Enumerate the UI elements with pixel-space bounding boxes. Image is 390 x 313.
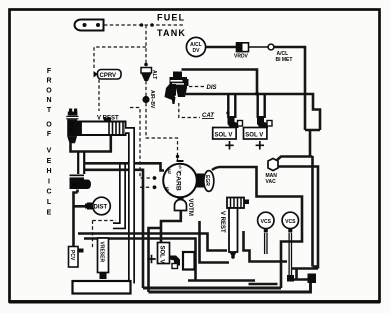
wire: v rest right link [244,231,288,262]
wire: low line [188,279,255,282]
wire: dashed junction down and over to carb B port [146,103,179,160]
fuel vapor separator (capsule) [75,20,104,31]
svg-text:E: E [47,209,52,216]
wire: dashed ALT to junction [145,81,147,96]
svg-text:SOL V: SOL V [215,132,233,138]
wire: VCV2 down, over to DIST and down to PCV [74,190,87,247]
svg-text:VOTM: VOTM [187,199,193,216]
svg-text:E: E [47,158,52,165]
svg-text:VRESER: VRESER [98,242,104,263]
svg-text:F: F [47,131,52,138]
svg-text:O: O [46,87,52,94]
check valve VCV 2 [70,175,92,190]
connector block [308,274,317,284]
A/CL DV (air cleaner duct vacuum) [186,37,205,56]
vacuum reservoir VRESER [98,238,109,279]
wire: votm drop to pan [200,221,230,263]
svg-text:EGR: EGR [204,175,210,186]
label FRONT OF VEHICLE [46,68,52,216]
svg-text:VCS: VCS [261,219,272,225]
VCS switch 1 [258,212,274,254]
svg-text:N: N [46,97,51,104]
svg-text:VAC: VAC [266,179,277,185]
wire: manifold line A to V REST pan [78,234,227,251]
PCV valve [69,247,84,268]
svg-text:VCS: VCS [285,219,296,225]
wire: manifold line B [84,239,196,281]
V REST vertical reservoir [219,198,249,260]
V REST horizontal reservoir [78,116,126,136]
wire: dashed CPRV to V REST [98,80,100,112]
wire: VCV1 to cylinder bottom and VCV2 [71,136,111,152]
wire: right riser to man vac [310,130,313,267]
check valve VCV 1 [66,109,78,144]
wire: low line 2 [249,283,278,286]
air bypass valve (black body) [165,72,189,105]
svg-text:SOL V: SOL V [245,132,263,138]
wire: dashed down to ALT valve [144,25,148,66]
solenoid valve SOL V 1 [213,128,236,150]
wire: man vac lower port to right riser [278,167,318,268]
wire: right lower jogs [291,267,318,280]
wire: A/CL DV to VRDV [206,46,236,49]
wire: bimet over and down right side [274,47,305,130]
carburetor CARB [163,161,197,197]
EGR valve [196,171,214,192]
wire: man vac upper port [277,157,313,161]
svg-text:VCV: VCV [72,183,83,189]
solenoid valve tube 1 [228,95,235,118]
wire: dashed CPRV branch [94,47,146,68]
svg-text:AIR–BV: AIR–BV [149,90,155,109]
svg-text:O: O [46,122,52,129]
hollow tube: bottom solenoid drop [183,252,195,270]
svg-text:CPRV: CPRV [100,73,117,79]
solenoid valve SOL V (bottom) [147,243,169,264]
wire: fan line to mid column [84,170,143,288]
wire: branch down to VCV2 (tube) [78,152,84,174]
wire: VRDV to bimet sensor [249,46,269,48]
svg-text:L: L [47,199,52,206]
svg-text:BI MET: BI MET [276,57,293,63]
solenoid elbow 1 [228,116,243,128]
svg-text:I: I [48,178,50,185]
label CAT [179,103,230,119]
CPRV valve [94,70,122,80]
svg-text:V REST: V REST [219,211,225,233]
svg-text:TANK: TANK [157,28,186,38]
VCS switch 2 [282,212,298,281]
wire: fan line to carb E port [84,163,164,170]
hollow tube: fan branch down to stub [112,164,123,226]
wire: fuel tank dashed line [104,23,185,27]
svg-text:VCV: VCV [67,122,73,133]
wire: bottom bus 2 [149,282,311,292]
node junction [255,92,259,96]
svg-text:VRDV: VRDV [234,54,249,60]
svg-text:V: V [47,148,52,155]
svg-text:R: R [46,78,51,85]
solenoid valve SOL V 2 [244,128,267,150]
distributor DIST [85,197,110,215]
svg-text:FUEL: FUEL [157,13,185,23]
svg-text:ALT: ALT [151,70,157,79]
VRDV (vacuum retard delay valve) [234,43,249,60]
wire: bypass valve upper line to SOL V 2 [182,70,258,96]
wire: main manifold line [184,94,320,130]
svg-text:H: H [46,168,51,175]
wire: dashed DIST branch to PCV [93,221,117,249]
label DIS [189,85,217,91]
A/CL BI MET sensor [268,44,292,63]
node AIR-BV junction [142,90,155,109]
svg-text:DV: DV [193,48,201,54]
svg-text:F: F [47,68,52,75]
wire: dashed branch to carb S port [130,108,156,190]
wire: bottom bus 1 [143,287,281,290]
svg-text:C: C [46,189,51,196]
svg-text:DIS: DIS [207,85,217,91]
hollow tray: bottom left manifold [73,281,131,294]
wire: column riser to sol v feed [149,228,162,292]
wire: EGR loop to lower right [212,167,302,288]
solenoid elbow 2 [257,116,272,128]
svg-text:T: T [47,107,52,114]
ALT valve (funnel) [141,68,157,82]
label FUEL TANK [157,13,186,39]
solenoid elbow (bottom) [170,256,180,269]
svg-text:PCV: PCV [69,250,75,261]
hollow tube: cylinder right end down mid column to tray [125,131,132,285]
svg-text:SOL V: SOL V [159,246,165,264]
MAN VAC fitting [266,159,279,186]
solenoid valve tube 2 [258,95,265,118]
VOTM (throttle modulator) [175,198,194,216]
wire: VOTM down to bottom solenoid [161,211,181,243]
svg-text:DIST: DIST [94,205,108,211]
